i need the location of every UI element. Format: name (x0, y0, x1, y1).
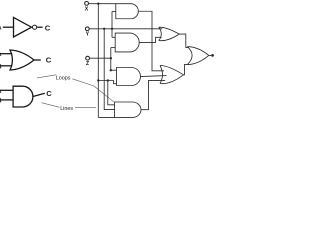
wire V4 stub to AND G5 input b (111, 47, 115, 49)
node B2 (clipped label, OR input b) (0, 63, 2, 70)
junction dot Z/V4 (110, 57, 112, 59)
wire V3 stub to AND G4 input b (112, 10, 116, 12)
wire riser V4 (Z to G5 b / G6 a) (110, 48, 112, 71)
wire OR output (34, 59, 41, 61)
wire OR input a (0, 53, 12, 55)
wire G4 output to OR G8 input a (138, 11, 164, 71)
inverter U1 triangle (14, 17, 32, 37)
callout line Loops to AND gate G7 loop (72, 79, 114, 103)
node C (inverter output) (45, 24, 51, 33)
or-gate G10 (final) (187, 47, 209, 65)
wire OR input b (0, 65, 12, 67)
wire AND input a (0, 89, 13, 91)
svg-text:A: A (0, 51, 2, 58)
wire AND output (33, 93, 45, 96)
inverter U1 output bubble (33, 25, 37, 29)
node B3 (clipped label, AND input b) (0, 97, 2, 104)
junction dot V1 tap (97, 79, 99, 81)
node A2 (clipped label, OR input a) (0, 51, 2, 58)
node A3 (clipped label, AND input a) (0, 88, 2, 95)
junction dot V4/G6a (110, 69, 112, 71)
wire Z line (90, 57, 111, 59)
callout line Lines to AND gate wires (42, 103, 60, 108)
and-gate G3 (left figure) (13, 86, 33, 107)
and-gate G6 (117, 68, 141, 86)
wire V1 tap to AND G6 input b (98, 81, 116, 84)
wire riser V3 (Y to G4 b / G5 a) (111, 11, 113, 37)
wire X line (89, 3, 116, 5)
node C (AND output) (46, 89, 52, 98)
wire Y line to OR G5 input a (89, 28, 162, 30)
or-gate G8 (upper) (159, 27, 179, 41)
junction dot Y/V3 (111, 28, 113, 30)
callout line Loops to OR gate (37, 75, 56, 78)
and-gate G5 (115, 33, 139, 52)
svg-text:B: B (0, 97, 2, 104)
and-gate G7 (115, 102, 141, 117)
svg-text:A: A (0, 88, 2, 95)
node C (OR output) (46, 56, 52, 65)
wire V4 stub to AND G6 input a (111, 69, 117, 71)
wire G8 output to final OR input a (179, 34, 189, 47)
callout line Lines to bus wires (75, 106, 96, 108)
wire V1 to AND G7 corner input (98, 116, 114, 118)
input terminal Y (85, 27, 89, 31)
svg-text:Y: Y (86, 31, 90, 37)
wire G5 output to OR G8' input b (139, 37, 161, 42)
svg-text:Lines: Lines (60, 106, 73, 112)
junction dot V5 tap (107, 79, 109, 81)
input terminal X (85, 2, 89, 6)
svg-text:B: B (0, 63, 2, 70)
wire inverter output (37, 26, 42, 28)
wire bus V5 to AND G7 input a (108, 81, 115, 105)
terminal labels (85, 7, 90, 67)
or-gate G9 (lower) (160, 65, 184, 83)
svg-text:X: X (85, 7, 89, 13)
or-gate G2 (left figure) (10, 50, 34, 70)
wire bus V2 (Y) (104, 29, 114, 110)
input terminal Z (86, 56, 90, 60)
svg-text:C: C (45, 24, 51, 33)
svg-text:C: C (46, 56, 52, 65)
wire G6 output to OR G8 input b (140, 76, 166, 77)
svg-text:C: C (46, 89, 52, 98)
wire inverter input (3, 26, 14, 28)
wire G7 output riser to OR G8 input c (141, 80, 165, 109)
svg-text:A: A (0, 25, 2, 32)
junction dot Y/V2 (103, 28, 105, 30)
wire AND input b (0, 99, 13, 101)
node A (clipped label, inverter input) (0, 25, 2, 32)
and-gate G4 (116, 4, 139, 19)
wire V3 stub to AND G5 input a (112, 36, 115, 38)
wire G9 output to final OR input b (184, 64, 189, 74)
svg-text:Z: Z (86, 61, 90, 67)
output terminal dot (211, 54, 214, 57)
svg-text:Loops: Loops (56, 76, 71, 82)
junction dot X/V1 (97, 3, 99, 5)
wire final output (209, 54, 212, 56)
wire bus V1 (X) (97, 4, 99, 118)
callout labels (56, 76, 74, 113)
